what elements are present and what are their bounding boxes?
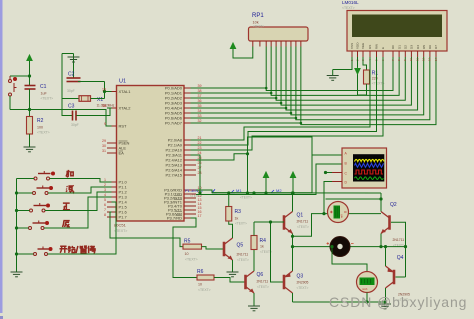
svg-text:14: 14 — [434, 57, 438, 61]
wire LCD E to MCU P2.2 — [191, 57, 384, 150]
svg-text:100: 100 — [37, 126, 43, 130]
power terminal (LCD VDD) — [357, 57, 359, 95]
node RST junction — [28, 108, 31, 111]
svg-text:7: 7 — [104, 208, 106, 212]
oscilloscope waveform B blue — [355, 163, 384, 167]
svg-text:<TEXT>: <TEXT> — [237, 258, 249, 262]
push button: add (jia) — [34, 171, 51, 180]
svg-text:Q6: Q6 — [257, 272, 264, 278]
reset button — [9, 76, 17, 99]
svg-text:VEE: VEE — [361, 43, 365, 49]
svg-text:R2: R2 — [37, 118, 44, 124]
ground (bridge bottom rail) — [384, 302, 386, 304]
LCD pin stubs, names and numbers — [350, 42, 438, 61]
wire R6 to Q6 base — [214, 278, 246, 283]
wire Q1 collector to supply rail — [292, 193, 294, 212]
svg-text:11: 11 — [415, 58, 419, 61]
wire P3.0 to oscilloscope channel A — [196, 155, 342, 193]
resistor R6 10 — [197, 275, 214, 280]
svg-text:30pF: 30pF — [71, 123, 79, 127]
wire R2 bottom to ground — [29, 134, 31, 147]
oscilloscope pins C D — [332, 172, 342, 174]
svg-text:2N1711: 2N1711 — [393, 238, 405, 242]
svg-text:<TEXT>: <TEXT> — [185, 258, 198, 262]
wire R4 top to Q1 base line — [253, 222, 255, 236]
wire Q1 base line — [254, 221, 284, 223]
wire oscilloscope channel D to meter node — [324, 182, 332, 214]
crystal X1 — [62, 98, 79, 100]
transistor Q4 2N2905 (mirrored) — [386, 266, 395, 288]
wire LCD RS to MCU P2.0 — [191, 57, 371, 140]
svg-text:Q2: Q2 — [390, 202, 397, 208]
wire Q2 collector — [380, 193, 382, 212]
transistor Q1 2N1711 — [284, 212, 293, 234]
U1 right pins with numbers — [164, 84, 202, 220]
wire button reverse to P1.3 — [44, 197, 112, 228]
push button: start/pause (kaishi/zanting) — [34, 247, 49, 256]
bottom ground rail of bridge — [293, 301, 386, 303]
wire crystal left leg — [62, 54, 72, 116]
resistor R4 1k — [251, 236, 257, 250]
label forward — [63, 203, 70, 210]
capacitor C1 — [25, 86, 36, 90]
DC ammeter meter1 — [328, 202, 349, 223]
wire button subtract to P1.1 — [48, 187, 112, 193]
svg-text:5: 5 — [104, 198, 106, 202]
svg-text:2N1711: 2N1711 — [257, 280, 269, 284]
svg-text:D7: D7 — [434, 45, 438, 49]
svg-text:C2: C2 — [68, 72, 75, 78]
svg-text:Q3: Q3 — [297, 274, 304, 280]
svg-text:17: 17 — [198, 214, 202, 218]
label start/pause — [60, 246, 68, 253]
wire reset button bottom to RST net — [9, 96, 11, 110]
svg-text:10: 10 — [198, 283, 202, 287]
wire Q5 collector to R3 — [229, 221, 233, 238]
svg-text:RST: RST — [119, 123, 128, 128]
capacitor C3 (horizontal) — [73, 111, 77, 121]
svg-text:R6: R6 — [197, 269, 204, 275]
wire Q2 emitter to motor right node — [380, 234, 382, 247]
wire ground spur (crystal network) — [62, 53, 74, 55]
svg-text:P3.7/RD: P3.7/RD — [167, 215, 182, 220]
wire Q6 emitter to ground — [253, 293, 255, 306]
svg-text:<TEXT>: <TEXT> — [235, 222, 247, 226]
label subtract — [66, 185, 74, 192]
microcontroller U1 80C51 — [117, 86, 185, 222]
svg-text:<TEXT>: <TEXT> — [37, 131, 50, 135]
svg-text:<TEXT>: <TEXT> — [342, 6, 355, 10]
ground (Q5 emitter) — [227, 272, 239, 277]
oscilloscope screen — [353, 154, 384, 181]
svg-text:<TEXT>: <TEXT> — [297, 225, 309, 229]
svg-text:C3: C3 — [68, 104, 75, 110]
svg-text:D3: D3 — [410, 45, 414, 49]
ground (crystal network) — [68, 57, 80, 62]
power terminal (bridge left) — [263, 172, 268, 179]
wire base tie Q1-Q3 — [271, 222, 285, 282]
wire motor right — [350, 246, 381, 248]
svg-text:mA: mA — [340, 214, 344, 218]
wire motor right node to base column — [381, 246, 406, 248]
svg-text:D4: D4 — [416, 45, 420, 49]
oscilloscope waveform C red — [355, 170, 383, 174]
ground (button rail) — [11, 272, 23, 277]
svg-text:10: 10 — [185, 252, 189, 256]
power terminal +5V (reset network) — [27, 55, 32, 62]
svg-text:CSDN @bbxyliyang: CSDN @bbxyliyang — [329, 294, 467, 310]
svg-text:D1: D1 — [397, 45, 401, 49]
wire LCD VEE to R1 — [363, 57, 367, 70]
svg-text:R5: R5 — [184, 239, 191, 245]
wire XTAL1 column — [104, 82, 106, 99]
svg-text:M1: M1 — [236, 188, 242, 193]
svg-text:9: 9 — [104, 122, 106, 126]
wire Q4 base — [396, 276, 406, 278]
resistor R3 1k — [226, 207, 232, 222]
wire Q4 collector to motor right node — [385, 247, 387, 266]
wire Q6 collector to R4 — [253, 250, 255, 272]
resistor pack RP1 10k — [249, 27, 309, 41]
svg-text:RW: RW — [375, 44, 379, 49]
svg-text:D5: D5 — [422, 45, 426, 49]
svg-text:<TEXT>: <TEXT> — [257, 285, 269, 289]
wire Q2 base loop — [391, 222, 406, 277]
svg-text:D0: D0 — [391, 45, 395, 49]
RP1 pin stubs — [253, 41, 301, 47]
wire C2 bottom to XTAL1 column — [78, 81, 105, 83]
svg-text:VSS: VSS — [350, 43, 354, 49]
wire VCC to C1 top and reset button — [29, 61, 31, 86]
wire RST net to MCU RST pin — [10, 110, 112, 127]
push button: reverse (fan) — [29, 221, 46, 230]
svg-text:E: E — [381, 47, 385, 49]
wire C3 right to MCU XTAL2 pin — [77, 108, 112, 116]
ground (reset network) — [24, 147, 36, 152]
oscilloscope waveform D green — [355, 177, 384, 180]
svg-text:RS: RS — [368, 45, 372, 49]
wire power to RP1 pin 1 — [233, 47, 253, 59]
svg-text:Q4: Q4 — [397, 255, 404, 261]
wire LCD RW to MCU P2.1 — [191, 57, 377, 145]
wire XTAL1 tap to MCU — [105, 91, 108, 93]
svg-text:LM016L: LM016L — [342, 0, 359, 5]
svg-text:2N2905: 2N2905 — [297, 281, 309, 285]
wire P3.7 to R6 — [173, 218, 197, 278]
svg-text:VDD: VDD — [356, 42, 360, 49]
wire button start/pause to P1.4 — [48, 202, 117, 254]
wire meter2 bottom to ground rail — [366, 293, 368, 303]
svg-text:R3: R3 — [235, 209, 242, 215]
junction marker at reset button top — [13, 77, 17, 81]
svg-text:XTAL2: XTAL2 — [119, 105, 132, 110]
left edge purple frame strip — [0, 0, 3, 313]
svg-text:M2: M2 — [276, 188, 282, 193]
wire R1 bottom to VDD rail — [358, 84, 367, 95]
svg-text:D2: D2 — [404, 45, 408, 49]
transistor Q2 2N1711 (mirrored) — [381, 212, 390, 234]
resistor R1 220 — [364, 70, 370, 84]
label reverse — [63, 221, 70, 228]
wire Q3 emitter to bottom rail — [292, 293, 294, 302]
capacitor C2 — [67, 78, 81, 82]
junction marker button add — [51, 172, 55, 176]
wire C1 bottom to RST node — [29, 89, 31, 110]
svg-text:<TEXT>: <TEXT> — [240, 196, 252, 200]
svg-text:18: 18 — [102, 104, 106, 108]
transistor Q6 2N1711 — [246, 271, 255, 293]
svg-text:6: 6 — [104, 203, 106, 207]
data bus wires P0.0-P0.7 to RP1 and LCD D0-D7 — [191, 47, 436, 125]
svg-text:2N1711: 2N1711 — [297, 220, 309, 224]
svg-text:<TEXT>: <TEXT> — [198, 288, 211, 292]
supply rail of H-bridge — [212, 192, 381, 194]
wire button add to P1.0 — [50, 179, 112, 183]
svg-text:<TEXT>: <TEXT> — [253, 25, 265, 29]
svg-text:<TEXT>: <TEXT> — [297, 286, 309, 290]
wire motor left — [293, 246, 331, 248]
wire meter1 left branch — [293, 214, 328, 237]
label add — [66, 170, 73, 177]
wire button forward to P1.2 — [45, 192, 112, 211]
svg-text:D6: D6 — [428, 45, 432, 49]
svg-text:13: 13 — [428, 57, 432, 61]
svg-text:U1: U1 — [119, 79, 126, 85]
svg-text:30: 30 — [102, 144, 106, 148]
svg-text:8: 8 — [104, 213, 106, 217]
svg-text:29: 29 — [102, 139, 106, 143]
transistor Q3 2N2905 — [284, 271, 293, 293]
svg-text:mAh: mAh — [362, 287, 368, 291]
U1 left pins with numbers — [102, 88, 131, 220]
transistor Q5 2N1711 — [224, 238, 233, 260]
wire Q4 emitter to ground rail — [385, 288, 387, 302]
wire meter2 branch from motor row — [332, 247, 367, 272]
svg-text:P1.7: P1.7 — [119, 214, 128, 219]
DC motor — [330, 237, 350, 257]
junction dots on button rail — [15, 191, 18, 194]
wire LCD VSS to ground — [333, 57, 352, 70]
svg-text:1uF: 1uF — [41, 92, 48, 96]
wire R5 to Q5 base — [202, 247, 225, 249]
oscilloscope body — [342, 148, 387, 188]
svg-text:X1: X1 — [97, 97, 103, 103]
oscilloscope waveform A yellow — [355, 159, 385, 161]
push button: subtract (jian) — [33, 186, 50, 195]
wire meter1 right branch — [349, 213, 382, 215]
wire crystal right leg to XTAL1 — [91, 98, 105, 100]
resistor R5 10 — [183, 244, 202, 249]
push button: forward (zheng) — [30, 203, 47, 212]
wire P2.3 loop to rail — [191, 155, 201, 193]
wire left button rail to ground — [16, 179, 18, 273]
ground (LCD VSS) — [332, 70, 334, 76]
svg-text:<TEXT>: <TEXT> — [41, 97, 54, 101]
DC voltmeter meter2 — [357, 272, 378, 293]
svg-text:XTAL1: XTAL1 — [119, 89, 132, 94]
svg-text:10: 10 — [409, 57, 413, 61]
svg-text:1k: 1k — [235, 217, 239, 221]
wire P1.6 to R5 — [110, 212, 183, 247]
wire Q5 emitter to ground — [232, 260, 234, 272]
svg-text:12: 12 — [422, 57, 426, 61]
svg-text:30pF: 30pF — [67, 89, 75, 93]
power terminal +5V (RP1 common) — [230, 43, 235, 50]
svg-text:R4: R4 — [260, 238, 267, 244]
wire P3.1 to oscilloscope channel B — [196, 164, 342, 195]
wire oscilloscope channel C to Q2 collector node — [326, 172, 333, 174]
wire rail stubs to buttons — [17, 178, 35, 180]
power terminal (bridge right) — [290, 172, 295, 179]
svg-text:C1: C1 — [40, 84, 47, 90]
LCD screen — [352, 15, 442, 38]
svg-text:Q1: Q1 — [297, 213, 304, 219]
svg-text:31: 31 — [102, 149, 106, 153]
svg-text:2N1711: 2N1711 — [237, 253, 249, 257]
wire P2.4 nested loop — [196, 137, 312, 160]
svg-text:1k: 1k — [260, 245, 264, 249]
svg-text:P2.7/A15: P2.7/A15 — [166, 172, 183, 177]
wire R3 top to supply rail — [228, 193, 230, 207]
svg-text:P0.7/AD7: P0.7/AD7 — [165, 120, 183, 125]
ground (Q6 emitter) — [248, 306, 260, 311]
svg-text:RP1: RP1 — [252, 13, 264, 19]
resistor R2 — [29, 110, 31, 117]
svg-text:Q5: Q5 — [237, 243, 244, 249]
wire Q1 emitter to motor left node — [292, 234, 294, 272]
